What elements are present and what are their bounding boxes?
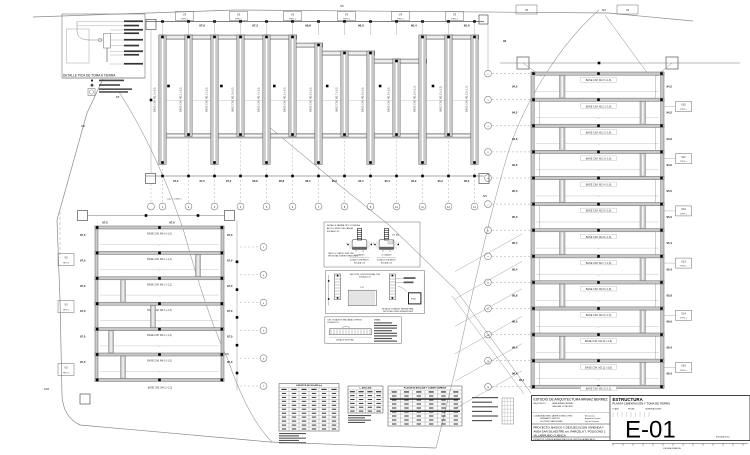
- svg-text:BASE CIM. M1.2 (-1,0): BASE CIM. M1.2 (-1,0): [206, 87, 209, 112]
- svg-text:LONGITUD DE SOLAPE (m): LONGITUD DE SOLAPE (m): [296, 384, 323, 387]
- svg-text:95,2: 95,2: [438, 179, 444, 183]
- svg-text:A CALLE / EN MEDIO: A CALLE / EN MEDIO: [350, 259, 369, 262]
- svg-text:97,0: 97,0: [227, 258, 233, 262]
- svg-text:BASE CIM. M2.2 (-1,8): BASE CIM. M2.2 (-1,8): [586, 131, 612, 134]
- svg-text:PROMOTOR: JUNTA DE ADMINISTR: PROMOTOR: JUNTA DE ADMINISTRACION DE CAS…: [534, 438, 597, 441]
- svg-text:95,0: 95,0: [667, 215, 673, 219]
- svg-text:PLANO: PLANO: [613, 408, 620, 411]
- svg-text:BASE CIM. M1.5 (-1,0): BASE CIM. M1.5 (-1,0): [284, 87, 287, 112]
- svg-text:95,4: 95,4: [667, 267, 673, 271]
- svg-text:TIPO x: TIPO x: [63, 373, 70, 375]
- svg-text:97,0: 97,0: [199, 24, 205, 28]
- svg-text:FECHA: FECHA: [628, 408, 635, 411]
- svg-text:VER NOTAS Y MEM. INSTALACIONES: VER NOTAS Y MEM. INSTALACIONES: [383, 310, 414, 313]
- svg-text:97,0: 97,0: [102, 221, 108, 225]
- svg-text:BASE CIM. M1.4 (-1,0): BASE CIM. M1.4 (-1,0): [258, 87, 261, 112]
- svg-text:V3: V3: [291, 13, 295, 17]
- svg-text:TIPO x: TIPO x: [680, 161, 687, 163]
- svg-text:CANTO s/ CUADRO (VER CIM.): CANTO s/ CUADRO (VER CIM.): [328, 252, 355, 255]
- svg-text:BASE CIM. M5.3 (-1,5): BASE CIM. M5.3 (-1,5): [586, 388, 612, 391]
- svg-text:BASE CIM. M4.4 (-1,4): BASE CIM. M4.4 (-1,4): [147, 334, 172, 337]
- svg-text:ESCALA 1:20: ESCALA 1:20: [359, 276, 371, 279]
- svg-text:ESCALA 1:20: ESCALA 1:20: [327, 230, 340, 233]
- svg-text:—: —: [159, 372, 161, 374]
- svg-text:95,4: 95,4: [667, 241, 673, 245]
- svg-text:BASE CIM. M4.2 (-1,2): BASE CIM. M4.2 (-1,2): [148, 386, 173, 389]
- svg-text:DETALLE ZAPATA TIPO CORRIDA: DETALLE ZAPATA TIPO CORRIDA: [327, 224, 360, 227]
- svg-text:97,0: 97,0: [80, 309, 86, 313]
- svg-text:BASE CIM. M1.8 (-1,0): BASE CIM. M1.8 (-1,0): [362, 87, 365, 112]
- svg-text:V5: V5: [340, 4, 344, 8]
- svg-text:96,0: 96,0: [667, 320, 673, 324]
- svg-text:V11: V11: [681, 156, 686, 159]
- svg-text:94,6: 94,6: [667, 137, 673, 141]
- svg-text:V13: V13: [681, 260, 686, 263]
- svg-text:BASE CIM. M1.11 (-1,0): BASE CIM. M1.11 (-1,0): [440, 86, 443, 112]
- svg-text:TIPO x: TIPO x: [680, 266, 687, 268]
- svg-text:—: —: [159, 245, 161, 247]
- svg-text:BASE CIM. M4.0 (-1,0): BASE CIM. M4.0 (-1,0): [147, 233, 172, 236]
- svg-text:97,0: 97,0: [80, 360, 86, 364]
- svg-text:97,2: 97,2: [252, 24, 258, 28]
- svg-text:BASE CIM. M1.0 (-1,0): BASE CIM. M1.0 (-1,0): [154, 87, 157, 112]
- svg-text:BASE CIM. M1.12 (-1,0): BASE CIM. M1.12 (-1,0): [466, 86, 469, 112]
- svg-text:ARQUITECTO:: ARQUITECTO:: [534, 402, 547, 405]
- svg-text:95,0: 95,0: [512, 215, 518, 219]
- svg-text:BASE CIM. M2.6 (-1,8): BASE CIM. M2.6 (-1,8): [586, 236, 612, 239]
- svg-text:E-01: E-01: [625, 417, 676, 444]
- svg-text:97,0: 97,0: [173, 179, 179, 183]
- svg-text:94,6: 94,6: [512, 163, 518, 167]
- svg-text:V3: V3: [345, 13, 349, 17]
- svg-text:ESCALA 1:20: ESCALA 1:20: [381, 262, 392, 265]
- svg-text:DETALLE RIOSTRA: DETALLE RIOSTRA: [336, 339, 354, 342]
- svg-text:TIPO x: TIPO x: [680, 318, 687, 320]
- svg-text:96,0: 96,0: [332, 179, 338, 183]
- svg-text:TIPO x: TIPO x: [63, 310, 70, 312]
- svg-text:TIPO x: TIPO x: [181, 18, 189, 20]
- svg-text:100: 100: [44, 387, 49, 391]
- svg-text:COLABORADORES: JAVIER GOMEZ LO: COLABORADORES: JAVIER GOMEZ LOPEZ: [534, 415, 574, 418]
- svg-text:DETALLE TOMA DE TIERRA GRAL.: DETALLE TOMA DE TIERRA GRAL.: [382, 307, 415, 310]
- svg-text:97,0: 97,0: [227, 360, 233, 364]
- svg-text:BASE CIM. M1.10 (-1,0): BASE CIM. M1.10 (-1,0): [414, 86, 417, 112]
- svg-text:Arquitecto Tecnico: Arquitecto Tecnico: [585, 417, 600, 420]
- svg-text:94,6: 94,6: [667, 163, 673, 167]
- svg-text:VILLARRUBIO CUENCA: VILLARRUBIO CUENCA: [534, 433, 566, 437]
- svg-text:TIPO x: TIPO x: [343, 18, 351, 20]
- svg-text:97,0: 97,0: [227, 284, 233, 288]
- svg-text:TIPO x: TIPO x: [235, 18, 243, 20]
- svg-text:94,2: 94,2: [667, 85, 673, 89]
- svg-text:97,0: 97,0: [80, 335, 86, 339]
- svg-text:DETALLE PICA DE TOMA A TIERRA: DETALLE PICA DE TOMA A TIERRA: [63, 74, 116, 78]
- svg-text:BASE CIM. M4.2 (-1,2): BASE CIM. M4.2 (-1,2): [147, 283, 172, 286]
- svg-text:BASE CIM. M1.9 (-1,0): BASE CIM. M1.9 (-1,0): [388, 87, 391, 112]
- svg-text:94,2: 94,2: [512, 111, 518, 115]
- svg-text:TIPO x: TIPO x: [680, 109, 687, 111]
- svg-text:96,0: 96,0: [358, 24, 364, 28]
- svg-text:BASE CIM. M2.5 (-1,8): BASE CIM. M2.5 (-1,8): [586, 210, 612, 213]
- svg-text:BASE CIM. M2.0 (-1,8): BASE CIM. M2.0 (-1,8): [586, 79, 612, 82]
- svg-text:A CALLE / EN MEDIO: A CALLE / EN MEDIO: [377, 259, 396, 262]
- svg-text:—: —: [159, 321, 161, 323]
- svg-text:94,2: 94,2: [667, 111, 673, 115]
- svg-text:97,0: 97,0: [80, 258, 86, 262]
- svg-text:OBSERVACIONES: OBSERVACIONES: [645, 408, 662, 411]
- svg-text:PLANTA CIMENTACIÓN Y TOMA DE T: PLANTA CIMENTACIÓN Y TOMA DE TIERRA: [613, 401, 671, 406]
- svg-text:BASE CIM. M2.4 (-1,8): BASE CIM. M2.4 (-1,8): [586, 184, 612, 187]
- svg-text:95,4: 95,4: [512, 267, 518, 271]
- svg-text:Ing. de Caminos: Ing. de Caminos: [585, 421, 599, 423]
- svg-text:GIL PEDRO SAN ROMAN: GIL PEDRO SAN ROMAN: [540, 420, 563, 423]
- svg-text:BASE CIM. M2.8 (-1,8): BASE CIM. M2.8 (-1,8): [586, 288, 612, 291]
- svg-text:BASE CIM. M2.10 (-1,8): BASE CIM. M2.10 (-1,8): [585, 340, 612, 343]
- svg-text:PLACAS DE ANCLAJE Y CUADRO ZAP: PLACAS DE ANCLAJE Y CUADRO ZAPATAS: [404, 387, 447, 390]
- svg-text:SECCION LONGITUDINAL CIM.: SECCION LONGITUDINAL CIM.: [350, 273, 381, 276]
- svg-text:V3: V3: [453, 13, 457, 17]
- svg-text:17: 17: [116, 95, 120, 99]
- svg-text:NURIA ARTO CASTRO: NURIA ARTO CASTRO: [540, 417, 560, 420]
- svg-text:97,0: 97,0: [80, 233, 86, 237]
- svg-text:96,8: 96,8: [252, 179, 258, 183]
- svg-text:1,50: 1,50: [360, 287, 364, 289]
- svg-text:U6: U6: [225, 352, 229, 356]
- svg-text:95,4: 95,4: [358, 179, 364, 183]
- svg-text:s/ CUADRO: s/ CUADRO: [381, 253, 392, 256]
- svg-text:—: —: [159, 346, 161, 348]
- svg-text:sup. t. 1.185 m: sup. t. 1.185 m: [167, 198, 182, 201]
- svg-text:U8: U8: [81, 124, 85, 128]
- svg-text:BASE CIM. M1.7 (-1,0): BASE CIM. M1.7 (-1,0): [336, 87, 339, 112]
- svg-text:PICA: PICA: [411, 298, 416, 301]
- svg-text:BASE CIM. M2.7 (-1,8): BASE CIM. M2.7 (-1,8): [586, 262, 612, 265]
- svg-text:95,0: 95,0: [512, 189, 518, 193]
- svg-text:96,4: 96,4: [667, 346, 673, 350]
- svg-text:N5: N5: [483, 194, 487, 198]
- svg-text:96,4: 96,4: [667, 372, 673, 376]
- svg-text:ESCALA 1:20: ESCALA 1:20: [328, 321, 339, 324]
- svg-text:V10: V10: [681, 104, 686, 107]
- svg-text:95,0: 95,0: [464, 179, 470, 183]
- svg-text:96,4: 96,4: [519, 378, 525, 382]
- svg-text:TIPO x: TIPO x: [451, 18, 459, 20]
- svg-text:BASE CIM. M4.5 (-1,5): BASE CIM. M4.5 (-1,5): [147, 360, 172, 363]
- svg-text:96,0: 96,0: [512, 320, 518, 324]
- svg-text:BASE CIM. M1.6 (-1,0): BASE CIM. M1.6 (-1,0): [310, 87, 313, 112]
- svg-text:95,8: 95,8: [512, 293, 518, 297]
- svg-text:96,8: 96,8: [279, 179, 285, 183]
- svg-text:96,4: 96,4: [512, 346, 518, 350]
- svg-text:TIPO x: TIPO x: [63, 263, 70, 265]
- svg-text:95,2: 95,2: [411, 179, 417, 183]
- svg-text:V3: V3: [183, 13, 187, 17]
- svg-text:95,0: 95,0: [464, 24, 470, 28]
- svg-text:96,4: 96,4: [512, 372, 518, 376]
- svg-text:VER NOTAS SOBRE HORMIGONES: VER NOTAS SOBRE HORMIGONES: [328, 254, 359, 257]
- svg-text:NOTA:: NOTA:: [375, 319, 381, 322]
- svg-text:97,2: 97,2: [226, 179, 232, 183]
- svg-text:95,8: 95,8: [667, 293, 673, 297]
- svg-text:L. ANCLAJE: L. ANCLAJE: [360, 387, 372, 390]
- svg-text:97,0: 97,0: [227, 233, 233, 237]
- svg-text:95,4: 95,4: [411, 24, 417, 28]
- svg-text:V3: V3: [399, 13, 403, 17]
- svg-text:BASE CIM. M2.9 (-1,8): BASE CIM. M2.9 (-1,8): [586, 314, 612, 317]
- svg-text:94,2: 94,2: [512, 85, 518, 89]
- svg-text:—: —: [159, 295, 161, 297]
- svg-text:V15: V15: [681, 365, 686, 368]
- svg-text:BASE CIM. M4.1 (-1,1): BASE CIM. M4.1 (-1,1): [147, 258, 172, 261]
- svg-text:TIPO x: TIPO x: [289, 18, 297, 20]
- svg-text:N.V. (M): N.V. (M): [392, 235, 399, 237]
- svg-text:TIPO x: TIPO x: [680, 370, 687, 372]
- svg-text:TIPO x: TIPO x: [397, 18, 405, 20]
- svg-text:ESCALA 1/50: ESCALA 1/50: [716, 436, 730, 439]
- svg-text:BASE CIM. M2.1 (-1,8): BASE CIM. M2.1 (-1,8): [586, 105, 612, 108]
- svg-text:TIPO x: TIPO x: [680, 213, 687, 215]
- svg-text:95,0: 95,0: [667, 189, 673, 193]
- svg-text:BASE CIM. M2.3 (-1,8): BASE CIM. M2.3 (-1,8): [586, 158, 612, 161]
- svg-text:96,0: 96,0: [305, 179, 311, 183]
- svg-text:N3: N3: [602, 8, 606, 12]
- svg-text:JAIME ARNAIZ BERMEZ: JAIME ARNAIZ BERMEZ: [552, 402, 574, 405]
- svg-text:96,8: 96,8: [305, 24, 311, 28]
- svg-text:95,4: 95,4: [385, 179, 391, 183]
- svg-text:BASE CIM. M2.11 (-1,8): BASE CIM. M2.11 (-1,8): [585, 366, 612, 369]
- svg-text:97,0: 97,0: [169, 221, 175, 225]
- svg-text:94,6: 94,6: [512, 137, 518, 141]
- svg-text:97,0: 97,0: [227, 335, 233, 339]
- svg-text:BASE CIM. M1.3 (-1,0): BASE CIM. M1.3 (-1,0): [232, 87, 235, 112]
- svg-text:V3: V3: [237, 13, 241, 17]
- svg-text:97,0: 97,0: [199, 179, 205, 183]
- svg-text:—: —: [159, 270, 161, 272]
- svg-text:94: 94: [503, 39, 507, 43]
- svg-text:CANOVAS, COTA CERO: CANOVAS, COTA CERO: [552, 405, 574, 408]
- svg-text:ESCALA 1:20: ESCALA 1:20: [354, 262, 365, 265]
- svg-text:V12: V12: [681, 208, 686, 211]
- svg-text:APOYO MURO DE CARGA: APOYO MURO DE CARGA: [327, 227, 353, 230]
- svg-text:97,0: 97,0: [227, 309, 233, 313]
- svg-text:DET. VIGA RIOSTRA / ATADO PERI: DET. VIGA RIOSTRA / ATADO PERIM.: [328, 319, 363, 322]
- svg-text:V14: V14: [681, 313, 686, 316]
- svg-text:BASE CIM. M1.1 (-1,0): BASE CIM. M1.1 (-1,0): [180, 87, 183, 112]
- svg-text:95,4: 95,4: [512, 241, 518, 245]
- svg-text:Estructuras: Estructuras: [585, 415, 595, 418]
- svg-text:ESTUDIO DE ARQUITECTURA ARNAIZ: ESTUDIO DE ARQUITECTURA ARNAIZ BERMEZ: [534, 397, 608, 401]
- svg-text:97,0: 97,0: [80, 284, 86, 288]
